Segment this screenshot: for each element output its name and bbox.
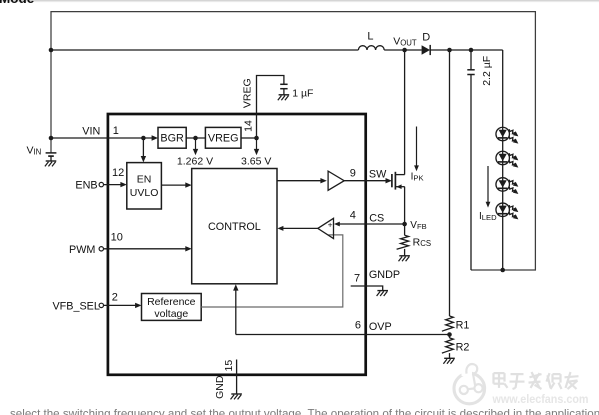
svg-text:VREG: VREG xyxy=(208,133,239,145)
svg-text:ENB: ENB xyxy=(75,179,97,191)
diode D xyxy=(422,31,431,55)
wire: branch down into EN UVLO xyxy=(141,138,146,162)
watermark text www.elecfans.com xyxy=(492,392,589,406)
svg-text:VFB: VFB xyxy=(410,220,426,231)
svg-text:14: 14 xyxy=(242,120,254,132)
pin number 12 xyxy=(112,167,124,179)
watermark logo (elecfans) xyxy=(454,364,485,404)
svg-text:select the switching frequency: select the switching frequency and set t… xyxy=(10,407,599,415)
wire: LED string vertical rail xyxy=(502,50,504,270)
watermark text 电子发烧友 (approximated strokes) xyxy=(494,372,579,389)
wire: OVP feedback into CONTROL xyxy=(233,284,238,334)
svg-text:4: 4 xyxy=(350,210,356,222)
ground: GND pin 15 xyxy=(231,394,242,399)
wire: VFB_SEL to Reference voltage xyxy=(104,303,142,308)
svg-text:R2: R2 xyxy=(456,341,470,353)
wire: VREG output to pin 14 node xyxy=(241,137,257,139)
svg-text:VIN: VIN xyxy=(82,125,100,137)
pin number 6 xyxy=(355,319,361,331)
wire: MOSFET source down to VFB node xyxy=(404,187,406,224)
capacitor 1 µF (VREG bypass) xyxy=(280,84,313,99)
svg-text:CONTROL: CONTROL xyxy=(208,221,261,233)
label SW (pin 9 port) xyxy=(369,169,387,181)
junction: LED return to loop xyxy=(500,268,505,273)
junction: VREG output node (pin 14) xyxy=(254,136,259,141)
svg-text:1.262 V: 1.262 V xyxy=(177,155,213,167)
wire: CS pin to comparator input xyxy=(334,222,405,227)
wire: inductor to diode anode xyxy=(384,49,421,51)
svg-text:2: 2 xyxy=(112,291,118,303)
comparator CS (current sense) xyxy=(318,218,334,238)
port VFB_SEL (label + terminal circle) xyxy=(52,301,103,313)
gate driver buffer (triangle) xyxy=(328,171,344,190)
wire: reference voltage to CS comparator (gray path) xyxy=(201,235,343,307)
ground: 1 µF bypass cap xyxy=(278,95,289,100)
LED 2 of string xyxy=(496,151,518,167)
svg-text:L: L xyxy=(367,31,373,43)
LED 3 of string xyxy=(496,178,518,194)
resistor R1 xyxy=(442,316,470,331)
label GND (rotated, pin 15) xyxy=(214,375,226,399)
resistor RCS (sense resistor) xyxy=(397,224,431,256)
transistor Q1 (external N-MOSFET) xyxy=(392,172,405,190)
svg-text:GNDP: GNDP xyxy=(369,269,400,281)
svg-text:+: + xyxy=(328,219,333,229)
wire: CONTROL to gate driver xyxy=(277,178,327,183)
pin number 15 (rotated) xyxy=(223,360,235,372)
svg-text:VFB_SEL: VFB_SEL xyxy=(52,301,99,313)
LED 4 of string xyxy=(496,203,518,219)
svg-text:EN: EN xyxy=(137,173,152,185)
wire: pin 14 VREG up and over to bypass cap xyxy=(257,76,284,139)
wire: diode cathode to LED string top xyxy=(430,49,503,51)
wire: GNDP pin stub to ground xyxy=(351,286,383,291)
wire: OVP pin 6 to divider tap xyxy=(236,334,450,336)
ground: R2 xyxy=(443,358,454,363)
arrow IPK (peak current) with label xyxy=(411,127,424,183)
svg-text:www.elecfans.com: www.elecfans.com xyxy=(492,392,589,406)
svg-text:9: 9 xyxy=(350,167,356,179)
pin number 7 xyxy=(354,272,360,284)
block EN UVLO xyxy=(127,163,162,209)
wire: PWM to CONTROL xyxy=(104,246,192,251)
svg-text:10: 10 xyxy=(111,231,123,243)
svg-text:Mode: Mode xyxy=(0,0,35,6)
label VIN (pin 1 port) xyxy=(82,125,100,137)
svg-text:15: 15 xyxy=(223,360,235,372)
wire: VIN node to inductor xyxy=(51,49,358,51)
svg-text:ILED: ILED xyxy=(479,211,497,222)
wire: driver to SW pin and MOSFET gate xyxy=(344,178,392,183)
block CONTROL xyxy=(192,169,277,284)
label CS (pin 4 port) xyxy=(369,213,384,225)
power source VIN (cell + label) xyxy=(27,144,57,161)
wire: comparator output to CONTROL xyxy=(277,226,317,231)
port ENB (label + terminal circle) xyxy=(75,179,103,191)
wire: BGR to VREG xyxy=(186,137,205,139)
svg-text:RCS: RCS xyxy=(413,236,431,248)
junction: VIN rail / pin-1 feed xyxy=(49,136,54,141)
svg-text:SW: SW xyxy=(369,169,387,181)
block VREG (regulator) xyxy=(205,127,241,148)
svg-text:BGR: BGR xyxy=(160,133,184,145)
svg-text:OVP: OVP xyxy=(369,321,392,333)
svg-text:D: D xyxy=(422,31,430,43)
node VOUT (junction + label) xyxy=(393,35,417,52)
svg-text:VIN: VIN xyxy=(27,144,42,156)
svg-text:R1: R1 xyxy=(456,319,470,331)
svg-text:2.2 µF: 2.2 µF xyxy=(481,56,493,86)
svg-text:voltage: voltage xyxy=(154,308,188,320)
capacitor 2.2 µF (output) xyxy=(467,50,492,270)
LED 1 of string xyxy=(496,127,518,143)
junction: output capacitor branch xyxy=(469,48,474,53)
arrow + label 3.65 V (regulator voltage) xyxy=(241,138,271,167)
junction: VIN rail / inductor feed xyxy=(49,48,54,53)
svg-text:GND: GND xyxy=(214,375,226,399)
block BGR xyxy=(158,127,186,148)
svg-text:CS: CS xyxy=(369,213,384,225)
svg-text:3.65 V: 3.65 V xyxy=(241,155,271,167)
caption text (cropped by page bottom) xyxy=(10,407,599,415)
inductor L xyxy=(358,31,384,51)
port PWM (label + terminal circle) xyxy=(69,244,103,256)
IC U1 body (main block) xyxy=(108,114,366,375)
wire: EN UVLO to CONTROL xyxy=(161,182,191,187)
pin number 14 (rotated) xyxy=(242,120,254,132)
pin number 9 xyxy=(350,167,356,179)
wire: pin 1 VIN into IC to BGR xyxy=(51,135,158,140)
label GNDP (pin 7 port) xyxy=(369,269,400,281)
junction: OVP divider branch xyxy=(447,48,452,53)
svg-text:Reference: Reference xyxy=(147,296,196,308)
ground: RCS xyxy=(399,256,410,261)
svg-text:1 µF: 1 µF xyxy=(292,88,313,100)
svg-text:PWM: PWM xyxy=(69,244,95,256)
svg-text:7: 7 xyxy=(354,272,360,284)
resistor R2 xyxy=(442,335,470,359)
svg-text:6: 6 xyxy=(355,319,361,331)
svg-text:UVLO: UVLO xyxy=(130,187,159,199)
wire: VOUT branch down to R1 xyxy=(449,50,451,316)
node VFB (junction + label) xyxy=(402,220,426,231)
wire: ENB to EN UVLO xyxy=(104,182,127,187)
pin number 10 xyxy=(111,231,123,243)
svg-text:VREG: VREG xyxy=(241,78,253,108)
wire: VOUT node down to MOSFET drain xyxy=(404,50,406,175)
svg-text:IPK: IPK xyxy=(411,172,424,183)
junction: divider tap (OVP) xyxy=(447,332,452,337)
arrow ILED (LED current) with label xyxy=(479,166,497,222)
block Reference voltage xyxy=(142,294,202,321)
wire: GND pin 15 stub xyxy=(236,360,238,395)
svg-text:12: 12 xyxy=(112,167,124,179)
label VREG (rotated, pin 14 net) xyxy=(241,78,253,108)
pin number 1 xyxy=(113,125,119,137)
pin number 4 xyxy=(350,210,356,222)
heading "Mode" (cropped by page top) xyxy=(0,0,599,6)
svg-text:VOUT: VOUT xyxy=(393,35,417,47)
label OVP (pin 6 port) xyxy=(369,321,392,333)
junction: bandgap output node xyxy=(193,136,198,141)
arrow + label 1.262 V (bandgap voltage) xyxy=(177,138,213,167)
ground: VIN source xyxy=(45,161,56,166)
wire: VIN rail up-over-down return loop (left vertical, top horizontal, right vertical, bottom return) xyxy=(51,12,535,270)
ground: GNDP xyxy=(377,291,388,296)
pin number 2 xyxy=(112,291,118,303)
svg-text:1: 1 xyxy=(113,125,119,137)
junction: VIN internal branch to EN UVLO xyxy=(141,136,146,141)
